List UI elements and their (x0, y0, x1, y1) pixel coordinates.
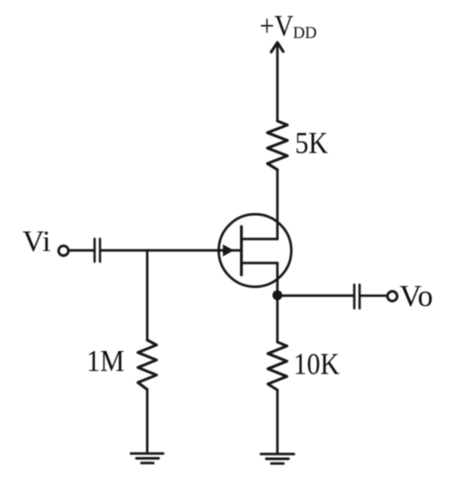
svg-text:Vi: Vi (23, 225, 51, 258)
svg-text:+V: +V (260, 10, 294, 43)
svg-text:1M: 1M (87, 343, 125, 378)
svg-text:5K: 5K (295, 125, 329, 160)
svg-text:10K: 10K (294, 346, 341, 381)
svg-text:DD: DD (293, 23, 317, 42)
svg-text:Vo: Vo (400, 278, 434, 313)
